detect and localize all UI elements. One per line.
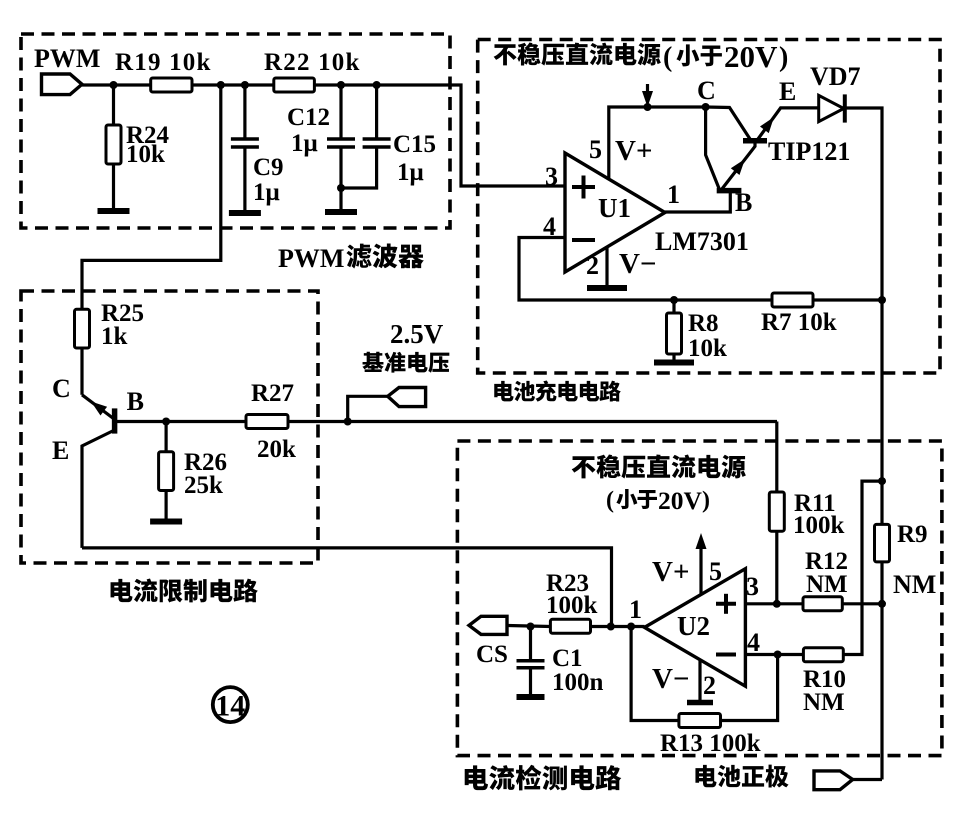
- svg-text:NM: NM: [803, 689, 845, 716]
- svg-text:1μ: 1μ: [291, 130, 318, 157]
- svg-text:): ): [702, 488, 710, 514]
- svg-text:100k: 100k: [793, 512, 845, 539]
- svg-text:E: E: [779, 77, 796, 106]
- svg-text:NM: NM: [893, 570, 936, 599]
- svg-text:100n: 100n: [552, 669, 604, 696]
- svg-text:C15: C15: [393, 131, 436, 158]
- svg-text:3: 3: [746, 572, 759, 601]
- svg-text:U1: U1: [598, 193, 631, 223]
- svg-text:(: (: [606, 488, 614, 514]
- svg-text:1k: 1k: [101, 323, 128, 350]
- svg-text:R27: R27: [251, 380, 294, 407]
- svg-text:V−: V−: [652, 663, 689, 695]
- svg-text:20V: 20V: [724, 39, 778, 74]
- svg-text:CS: CS: [476, 641, 508, 668]
- svg-text:20k: 20k: [257, 436, 296, 463]
- svg-text:R13 100k: R13 100k: [660, 730, 761, 757]
- svg-text:C9: C9: [253, 154, 284, 181]
- svg-text:2: 2: [703, 671, 716, 700]
- svg-text:100k: 100k: [546, 592, 598, 619]
- svg-text:C1: C1: [552, 645, 583, 672]
- svg-text:): ): [779, 42, 788, 73]
- svg-text:LM7301: LM7301: [655, 227, 749, 256]
- svg-text:NM: NM: [806, 571, 848, 598]
- svg-text:2: 2: [586, 251, 599, 280]
- svg-text:PWM: PWM: [278, 244, 344, 273]
- svg-text:R22 10k: R22 10k: [264, 49, 361, 76]
- svg-text:3: 3: [545, 162, 558, 191]
- svg-text:U2: U2: [677, 611, 710, 641]
- svg-text:14: 14: [215, 690, 245, 723]
- svg-text:10k: 10k: [688, 335, 727, 362]
- svg-text:1: 1: [629, 595, 642, 624]
- svg-text:1μ: 1μ: [397, 159, 424, 186]
- svg-text:V−: V−: [619, 248, 656, 280]
- svg-text:V+: V+: [615, 135, 652, 167]
- svg-text:25k: 25k: [184, 472, 223, 499]
- svg-text:B: B: [735, 188, 752, 217]
- svg-text:R9: R9: [897, 521, 928, 548]
- svg-text:E: E: [52, 436, 69, 465]
- svg-text:5: 5: [709, 557, 722, 586]
- svg-text:R7 10k: R7 10k: [761, 309, 837, 336]
- svg-text:2.5V: 2.5V: [390, 319, 444, 349]
- svg-text:VD7: VD7: [810, 62, 861, 91]
- svg-text:B: B: [127, 387, 144, 416]
- svg-text:(: (: [663, 42, 672, 73]
- svg-text:C12: C12: [287, 104, 330, 131]
- svg-text:10k: 10k: [126, 141, 165, 168]
- svg-text:TIP121: TIP121: [768, 137, 850, 166]
- svg-text:1: 1: [667, 180, 680, 209]
- svg-text:1μ: 1μ: [253, 179, 280, 206]
- svg-text:PWM: PWM: [34, 44, 100, 73]
- svg-text:4: 4: [747, 628, 760, 657]
- svg-text:5: 5: [589, 135, 602, 164]
- svg-text:20V: 20V: [658, 486, 703, 515]
- svg-text:R19 10k: R19 10k: [115, 49, 212, 76]
- svg-text:C: C: [697, 76, 716, 105]
- svg-text:R8: R8: [688, 310, 719, 337]
- svg-text:V+: V+: [652, 556, 689, 588]
- svg-text:C: C: [52, 374, 71, 403]
